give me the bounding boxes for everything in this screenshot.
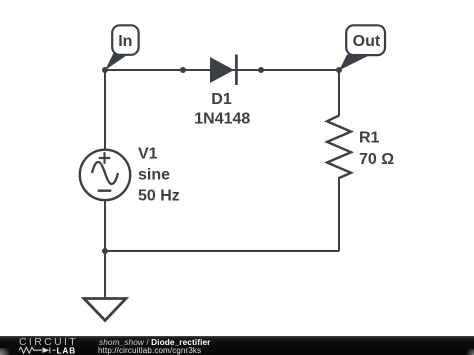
wire from R1 bottom to bottom wire (338, 177, 340, 251)
svg-text:LAB: LAB (57, 346, 77, 355)
svg-text:70 Ω: 70 Ω (359, 151, 394, 168)
wire from Out node down to R1 top (338, 70, 340, 116)
svg-text:Out: Out (353, 33, 381, 50)
wire ground stem (104, 251, 106, 297)
node In flag (105, 25, 139, 70)
resistor R1 (327, 116, 351, 179)
wire from In node down to V1 top (104, 70, 106, 150)
node Out flag (339, 25, 385, 70)
wire from V1 bottom to bottom junction (104, 200, 106, 251)
junction dot at D1 cathode terminal (258, 67, 264, 73)
svg-text:50 Hz: 50 Hz (138, 188, 180, 205)
svg-text:sine: sine (138, 167, 170, 184)
CircuitLab logo symbol row (19, 346, 79, 355)
junction dot at D1 anode terminal (180, 67, 186, 73)
svg-text:R1: R1 (359, 130, 380, 147)
svg-text:1N4148: 1N4148 (194, 111, 250, 128)
voltage source V1 (80, 150, 130, 200)
ground (84, 299, 126, 321)
junction dot at In node (102, 67, 108, 73)
diode D1 (210, 55, 236, 86)
wire bottom horizontal from junction to R1 branch (105, 250, 339, 252)
svg-text:In: In (118, 33, 132, 50)
junction dot at Out node (336, 67, 342, 73)
svg-text:V1: V1 (138, 146, 158, 163)
svg-text:D1: D1 (211, 91, 232, 108)
junction dot at bottom ground junction (102, 248, 108, 254)
wire top horizontal from In node to Out node (105, 69, 339, 71)
